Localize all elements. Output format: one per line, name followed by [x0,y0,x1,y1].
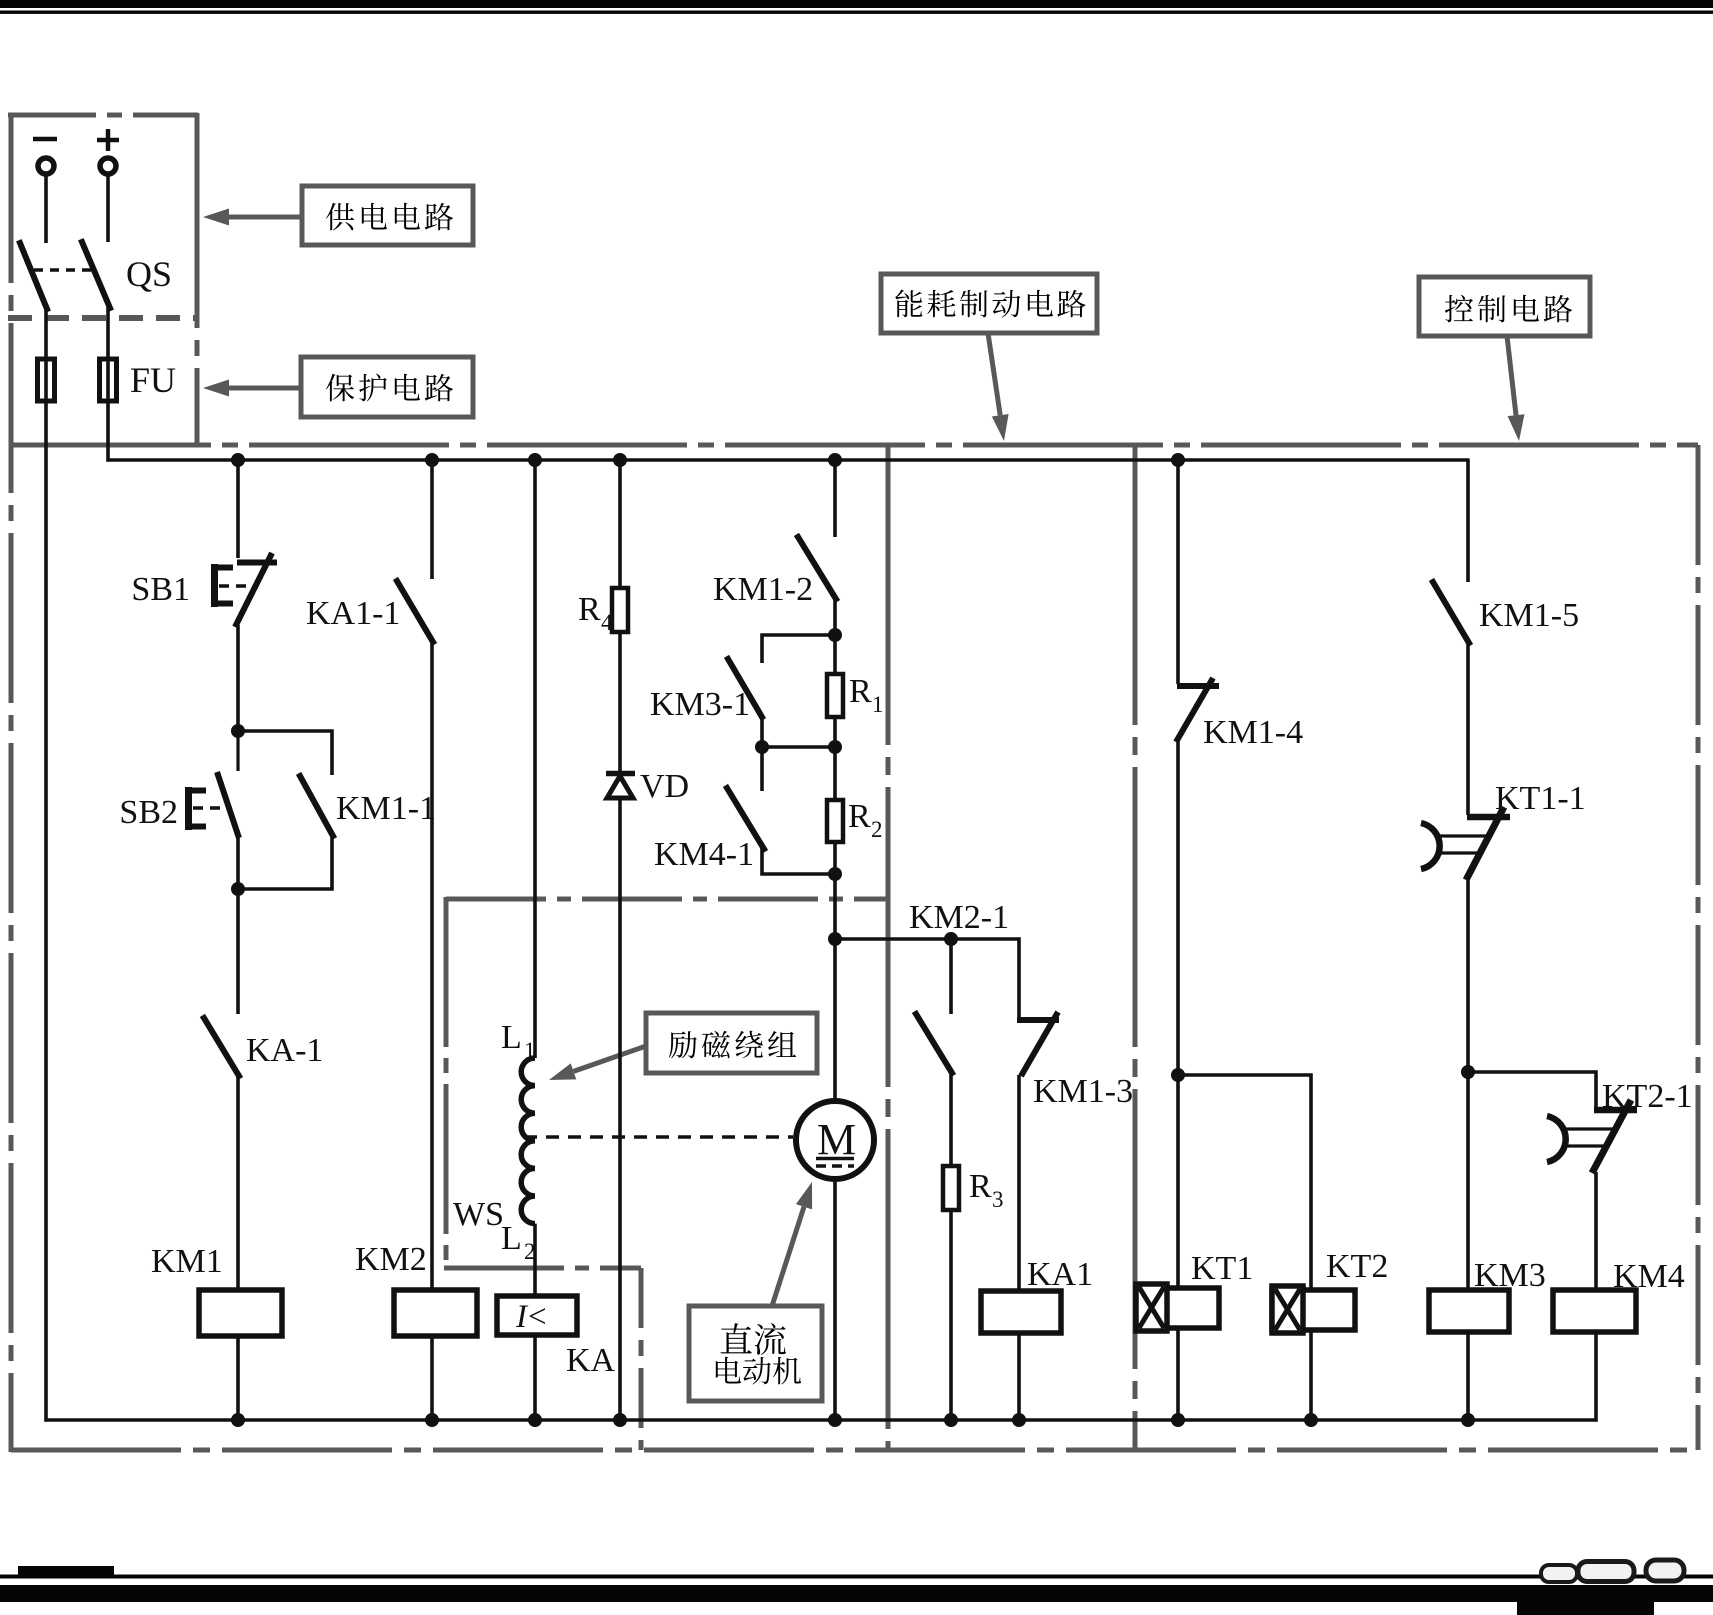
junction node top bus x=535 [528,453,542,467]
contact KA-1 (NO) [204,1018,239,1076]
switch QS mechanical link (dashed) [34,268,96,271]
contact KM1-3 (NC) [1017,1012,1059,1076]
inductor WS field winding (6 bumps) [521,1058,535,1224]
wire: motor bottom to bus [833,1179,837,1420]
svg-text:L: L [501,1220,522,1257]
svg-text:KM1-1: KM1-1 [336,790,436,827]
wire: top bus to KM1-4 [1176,460,1180,684]
power-supply block boundary box (top-left) [8,113,198,447]
wire: junction across to R1 bottom [762,745,835,749]
resistor R1 [827,674,843,717]
positive terminal [100,158,116,174]
svg-text:KT1-1: KT1-1 [1495,780,1586,817]
svg-text:KM1-3: KM1-3 [1033,1073,1133,1110]
wire: VD to bottom bus [618,798,622,1420]
wire: KM4-1 to R2 bottom junction [762,848,835,874]
svg-text:KM1: KM1 [151,1243,223,1280]
svg-text:KA: KA [566,1342,616,1379]
negative terminal [38,158,54,174]
junction node bottom bus x=535 [528,1413,542,1427]
motor M letter and DC marks [816,1115,856,1166]
svg-text:KM1-5: KM1-5 [1479,597,1579,634]
wire: top bus to KM1-2 [833,460,837,537]
junction node KM4-1 bottom [828,867,842,881]
svg-text:3: 3 [992,1187,1004,1212]
current relay KA (I<) [497,1296,577,1335]
wire: R1 bottom to R2 [833,717,837,800]
junction node bottom bus x=1311 [1304,1413,1318,1427]
svg-text:KM3-1: KM3-1 [650,686,750,723]
wire: branch to KM1-1 [238,731,332,775]
wire: KT2 to bottom bus [1309,1332,1313,1420]
fuse FU1 [38,359,55,401]
svg-text:2: 2 [871,817,883,842]
coil KA1 [981,1291,1061,1333]
wire: coil KM1 to bottom bus [236,1336,240,1420]
coil KM4 [1553,1290,1636,1332]
label box: DC motor (zhi liu dian dong ji) [689,1306,822,1401]
junction node top bus x=238 [231,453,245,467]
wire: KM1-1 down and back to column [238,835,332,889]
outer left chain boundary [9,113,14,1452]
arrow: protection label to fuse row [203,380,301,397]
wire: branch to KT2 [1178,1075,1311,1290]
switch QS pole 2 [82,242,110,308]
resistor R3 [943,1166,959,1210]
wire: KM1-4 down to KT2 branch junction [1176,741,1180,1289]
svg-text:R: R [848,798,871,835]
junction node KM3-1 bottom [755,740,769,754]
wire: bottom return bus [44,1418,1597,1422]
wire: left rail (minus) down to bottom bus [44,401,48,1422]
svg-text:KA1-1: KA1-1 [306,595,400,632]
right chain boundary [1696,445,1701,1450]
wire: minus terminal down [44,174,48,243]
wire: SB2 to junction [236,837,240,889]
svg-text:L: L [501,1019,522,1056]
contact KM1-5 (NO) [1433,582,1469,643]
wire: KM4 to bottom bus end [1594,1332,1598,1422]
junction node bottom bus x=1178 [1171,1413,1185,1427]
wire: QS pole1 to fuse FU1 [44,308,48,360]
wire: KM1-2 to R1 junction [833,598,837,674]
wire: KM1-5 to KT1-1 [1466,642,1470,815]
junction node top bus x=835 [828,453,842,467]
resistor R4 [612,588,628,632]
wire: coil KA1 to bottom bus [1017,1333,1021,1420]
wire: coil KM2 to bottom bus [430,1336,434,1420]
svg-text:KA1: KA1 [1027,1256,1093,1293]
motor M armature circle [796,1101,874,1179]
coil KM2 [394,1290,477,1336]
junction node bottom bus x=835 [828,1413,842,1427]
diode VD [606,774,635,799]
wire: R4 to VD [618,632,622,774]
label box: excitation winding (li ci rao zu) [646,1013,817,1073]
arrow: power supply label to supply box [203,209,302,226]
coil KM3 [1429,1290,1509,1332]
svg-text:I: I [515,1299,529,1335]
page bottom border bars [0,1566,1713,1615]
coil KT1 (time relay) [1136,1284,1219,1331]
wire: KM1-3 to coil KA1 [1017,1075,1021,1291]
bottom chain boundary [11,1448,1698,1453]
junction node bottom bus x=951 [944,1413,958,1427]
svg-text:WS: WS [453,1196,504,1233]
arrow: DC motor label to motor [772,1182,812,1306]
svg-text:QS: QS [126,254,172,294]
wire: KA-1 to coil KM1 [236,1075,240,1290]
contact KM1-2 (NO) [798,537,836,599]
junction node KT2-1 branch [1461,1065,1475,1079]
wire: KM2-1 branch horizontal [835,939,1019,1018]
arrow: braking label to braking block [988,333,1009,441]
label box: control circuit (kong zhi dian lu) [1419,277,1590,336]
field-winding block chain boundary [444,897,888,1450]
junction node R3 branch top [944,932,958,946]
junction node KT2 branch [1171,1068,1185,1082]
junction node top bus x=1178 [1171,453,1185,467]
svg-text:R: R [969,1168,992,1205]
wire: branch to KT2-1 [1468,1072,1596,1108]
main horizontal chain boundary [11,443,1698,448]
svg-text:KA-1: KA-1 [246,1032,323,1069]
wire: tap to KM2-1 contact [949,939,953,1014]
junction node top bus x=620 [613,453,627,467]
contact KM1-4 (NC) [1176,678,1219,742]
resistor R2 [827,800,843,842]
junction node R1 bottom [828,740,842,754]
svg-text:KT1: KT1 [1191,1250,1253,1287]
wire: top bus corner down to KM1-5 [1466,460,1470,582]
svg-text:R: R [849,673,872,710]
coil KM1 [199,1290,282,1336]
junction node bottom bus x=1019 [1012,1413,1026,1427]
svg-text:SB2: SB2 [119,794,178,831]
svg-text:KT2: KT2 [1326,1248,1388,1285]
svg-text:KM2-1: KM2-1 [909,899,1009,936]
wire: top supply bus [106,458,1469,462]
pushbutton SB2 (NO start) [186,731,239,838]
control block left chain boundary [1133,445,1138,1450]
contact KM3-1 (NO) [728,659,762,717]
arrow: control label to control block [1507,336,1525,441]
wire: KT1-1 down to KT2-1 branch junction [1466,878,1470,1290]
wire: top bus to SB1 [236,460,240,558]
svg-text:M: M [817,1115,856,1164]
wire: branch to KM3-1 [762,635,835,663]
svg-text:<: < [528,1299,547,1335]
label box: power supply circuit (gong dian dian lu) [302,186,473,245]
dynamic-braking block left chain boundary [886,445,891,1450]
wire: top bus to KA1-1 [430,460,434,579]
junction node bottom bus x=620 [613,1413,627,1427]
contact KT1-1 (NC time-delay) [1421,807,1510,880]
wire: plus rail down to top bus [106,401,110,462]
wire: KM3-1 down to junction [760,716,764,747]
junction node bottom bus x=1468 [1461,1413,1475,1427]
terminal minus sign [33,137,57,142]
wire: SB1 to junction [236,625,240,731]
svg-text:KM4-1: KM4-1 [654,836,754,873]
contact KT2-1 (NC time-delay) [1547,1100,1637,1173]
wire: motor armature top [833,939,837,1101]
wire: KA relay to bottom bus [533,1335,537,1420]
contact KA1-1 (NO) [397,581,433,642]
svg-text:VD: VD [640,768,689,805]
arrow: excitation label to field coil [549,1046,646,1080]
wire: R2 to motor junction [833,842,837,940]
wire: R3 to bottom bus [949,1210,953,1420]
svg-text:SB1: SB1 [131,571,190,608]
svg-text:1: 1 [872,692,884,717]
wire: KM3 to bottom bus [1466,1332,1470,1420]
wire: plus terminal down [106,174,110,242]
junction node bottom bus x=238 [231,1413,245,1427]
svg-text:KM1-2: KM1-2 [713,571,813,608]
contact KM1-1 (NO holding) [300,776,333,836]
junction node top bus x=432 [425,453,439,467]
dashed link field winding to motor [524,1135,793,1138]
junction node armature top / KM2-1 tap [828,932,842,946]
fuse FU2 [100,359,117,401]
switch QS pole 1 [20,243,47,309]
wire: junction down to KA-1 [236,889,240,1014]
wire: KT1 to bottom bus [1176,1329,1180,1420]
wire: KT2-1 down to KM4 [1594,1172,1598,1290]
junction node SB2 branch bottom [231,882,245,896]
junction node bottom bus x=432 [425,1413,439,1427]
junction node SB2 branch top [231,724,245,738]
wire: QS pole2 to fuse FU2 [106,307,110,360]
svg-text:KM1-4: KM1-4 [1203,714,1303,751]
page top border bar [0,0,1713,14]
wire: field winding to KA relay [533,1224,537,1296]
svg-text:KM2: KM2 [355,1241,427,1278]
svg-text:R: R [578,591,601,628]
label box: dynamic braking circuit (neng hao zhi dong dian lu) [881,274,1097,333]
pushbutton SB1 (NC stop) [212,553,277,627]
junction node R1 top [828,628,842,642]
svg-text:FU: FU [130,360,176,400]
contact KM2-1 (NO) [916,1014,952,1073]
protection block dashed separator [8,315,197,321]
terminal plus sign [97,129,119,151]
contact KM4-1 (NO) [760,747,764,791]
wire: KA1-1 to coil KM2 [430,641,434,1290]
wire: contact to R3 [949,1072,953,1166]
label box: protection circuit (bao hu dian lu) [301,357,473,417]
coil KT2 (time relay) [1272,1286,1355,1333]
decorative scroll glyphs bottom-right [1541,1560,1684,1582]
wire: top bus to R4 [618,460,622,588]
wire: top bus to field winding [533,460,537,1058]
